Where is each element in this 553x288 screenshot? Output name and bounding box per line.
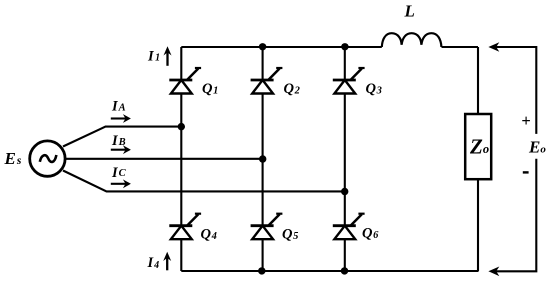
svg-text:L: L bbox=[404, 2, 415, 21]
svg-text:+: + bbox=[521, 111, 530, 130]
svg-text:IC: IC bbox=[111, 165, 127, 181]
